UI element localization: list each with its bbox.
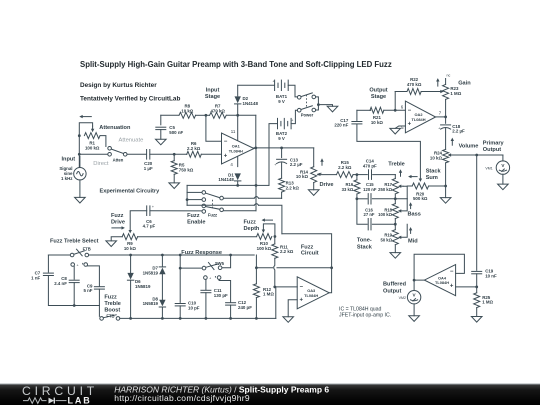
svg-text:10 kΩ: 10 kΩ [181,108,194,113]
annotation arrow Mid [409,227,412,233]
svg-text:Drive: Drive [320,182,334,188]
label Fuzz Circuit [301,244,319,256]
svg-text:Design by Kurtus Richter: Design by Kurtus Richter [80,82,157,89]
op-amp OA3 [297,277,329,309]
wire input rail [78,136,80,168]
svg-text:10 kΩ: 10 kΩ [124,246,137,251]
svg-text:V: V [413,293,417,298]
potentiometer R9 [122,234,137,252]
diode D6 [127,273,151,289]
wire feedback up [394,92,396,111]
hop rowA [254,197,258,199]
svg-text:750 kΩ: 750 kΩ [179,168,194,173]
svg-text:+: + [450,283,454,289]
op-amp OA4 [424,265,455,296]
svg-text:Gain: Gain [458,80,471,86]
svg-text:7: 7 [439,110,442,115]
svg-text:−: − [299,285,303,291]
svg-text:10 pF: 10 pF [188,306,200,311]
ground OA2 plus [390,128,401,134]
wire throw1b tap [187,199,202,201]
wire C10 column [179,255,182,302]
ground R5 [169,174,180,188]
wire top bus [89,254,255,257]
resistor R13 [279,178,300,192]
svg-text:Stack: Stack [357,244,373,250]
resistor R1 wiper arrow [91,126,94,132]
wire pin4 to D1 [237,156,239,166]
wire R1 to switch [100,136,106,147]
svg-text:1 µF: 1 µF [144,166,153,171]
wire bus x187 [186,185,188,205]
label Attenuation [99,125,131,131]
wire D1 to bus [237,181,239,186]
svg-text:1 MΩ: 1 MΩ [263,292,274,297]
label Stack Sum [426,168,442,181]
resistor R5 [171,154,194,174]
wire bypass corner to BAT2 rail [256,184,269,186]
svg-text:JFET-input op-amp IC.: JFET-input op-amp IC. [339,313,391,319]
label Buffered Output [383,282,407,295]
wire BAT2 right to switch [291,110,297,123]
resistor R11 [272,237,294,259]
svg-text:FTB: FTB [83,247,91,252]
svg-text:2.2 kΩ: 2.2 kΩ [280,249,294,254]
wiper arrow R18 [398,209,401,212]
voltmeter VM1 [485,155,509,174]
svg-text:Stage: Stage [371,94,386,100]
wire feedback down to output [255,115,257,148]
label Treble [388,162,404,168]
wire R22 left [395,91,407,93]
label Volume [459,144,479,150]
wire D2 to pin11 [237,104,239,141]
svg-text:500 nF: 500 nF [169,130,183,135]
voltage source V1 signal [74,156,86,197]
capacitor C7 [31,255,53,280]
wire horizontal2 [256,266,333,269]
wire R19 bottom [394,245,396,253]
wire row2 right [372,197,407,200]
potentiometer R18 [378,204,398,219]
svg-text:SW5: SW5 [215,261,225,266]
label Power [301,112,314,117]
annotation arrow attenuation [79,115,91,118]
wire R23 nc stub [446,74,451,85]
svg-text:33 kΩ: 33 kΩ [342,187,354,192]
label Fuzz Treble Select [50,239,99,245]
ground OA3 [283,317,294,323]
annotation arrow fuzz depth [262,218,273,221]
svg-text:Input: Input [206,88,220,94]
wire R11 hop down [274,258,275,285]
svg-text:2.2 µF: 2.2 µF [452,129,465,134]
resistor R8 [179,103,196,118]
svg-text:120 nF: 120 nF [363,187,377,192]
svg-text:100 kΩ: 100 kΩ [85,146,100,151]
wire R8 left [161,114,179,116]
diode D7 [143,266,166,276]
svg-text:2.2 kΩ: 2.2 kΩ [187,146,201,151]
terminal circles FTB [71,262,88,268]
svg-text:Output: Output [369,88,387,94]
label Fuzz Depth [244,220,260,232]
wire rowA right [259,197,282,199]
wire row3 drop [357,199,367,224]
capacitor C8 [54,266,79,286]
wire to power ground [318,105,332,107]
switch FTB2 bottom [100,315,120,320]
wire BAT1 rail [238,84,275,86]
svg-text:Stack: Stack [426,168,442,174]
svg-text:+: + [224,153,228,159]
svg-text:470 pF: 470 pF [363,163,377,168]
svg-text:Power: Power [301,112,314,117]
node R5 junction [173,153,176,156]
svg-text:Treble: Treble [388,162,404,168]
wire SW5 tap [180,267,202,269]
wire bypass top [187,184,257,187]
svg-text:TL084H: TL084H [411,117,425,122]
svg-text:Atten: Atten [113,157,124,162]
svg-text:130 pF: 130 pF [214,293,228,298]
wire rowC [223,210,256,212]
hop rowB [254,204,258,206]
svg-text:Attenuation: Attenuation [99,125,131,131]
wire R19 wiper return [401,224,407,237]
wire OA4 plus [456,286,477,288]
svg-text:+: + [438,126,440,130]
label V1 signal [59,166,73,181]
wire OA2 plus to ground [395,126,405,128]
wire R24 wiper to output [450,154,503,157]
svg-text:2.2 µF: 2.2 µF [290,162,303,167]
ground stack sum [440,198,451,204]
node OA1 output [254,147,257,150]
label Output Stage [369,88,387,101]
wire output node down [476,155,478,270]
svg-text:1N5819: 1N5819 [143,301,159,306]
wire R9 to R10 [138,236,257,238]
wire R25 bottom [476,308,478,317]
svg-text:VM2: VM2 [399,296,406,300]
svg-text:LAB: LAB [68,396,92,405]
wire R18 bottom lead [394,219,396,225]
resistor R18 top lead [394,199,396,204]
wire D2 rail top [237,85,239,96]
wire R9 left to ground [111,237,122,241]
switch SW Power pole1 [297,93,315,99]
node R11 OA3 minus [273,286,276,289]
svg-text:−: − [224,139,228,145]
wire R21 to OA2 minus [384,109,406,112]
byline verified [80,96,180,103]
svg-text:Drive: Drive [111,219,125,225]
wire R23 bottom [445,99,447,117]
footer logo squiggle [23,398,47,404]
annotation arrow Drive [320,158,323,165]
annotation arrow stack [408,175,417,178]
svg-text:Sum: Sum [426,175,438,181]
wire D7 D8 link [161,274,163,300]
voltmeter VM2 [399,280,421,304]
wire D6 column bottom [130,280,132,318]
wire C13 to R13 [281,163,283,178]
svg-text:2.2 kΩ: 2.2 kΩ [338,165,352,170]
annotation arrow fuzz drive [112,226,125,229]
wire R20 node to ground [445,186,447,198]
capacitor C17 [334,110,362,127]
svg-text:500 kΩ: 500 kΩ [413,196,428,201]
svg-text:Primary: Primary [483,140,505,146]
wire R20 left to treble wiper [407,185,412,187]
svg-text:1N5819: 1N5819 [135,284,151,289]
wire top bus left [48,254,70,256]
wire C11 bottom [205,293,207,319]
wire C5 branch [160,115,162,125]
capacitor C16 [364,207,375,230]
node OA4 output [413,279,416,282]
resistor R22 [407,77,422,95]
ground C5 [156,130,167,145]
wire R20 right [429,185,446,187]
svg-text:Fuzz: Fuzz [111,213,124,219]
ground R9 [106,241,117,247]
resistor R19 top lead [394,224,396,229]
wire R15 to C14 [353,173,367,176]
svg-text:Volume: Volume [459,144,479,150]
wire row2 [357,198,367,200]
label Fuzz Response [181,250,222,256]
wire C19 to R25 [475,274,478,289]
ground VM2 [409,304,420,322]
label Fuzz Drive [111,213,125,225]
svg-text:250 kΩ: 250 kΩ [378,187,392,192]
svg-text:nc: nc [447,74,451,78]
svg-text:Depth: Depth [244,226,260,232]
wire R18 wiper return [401,199,407,211]
wire C12 bottom [230,305,232,318]
svg-text:Tentatively Verified by Circui: Tentatively Verified by CircuitLab [80,96,180,103]
wire R12 bottom [255,298,257,319]
wire C20 to R6 [150,153,187,155]
resistor R25 [474,287,494,308]
resistor R6 [187,141,202,157]
wiper arrow R9 [129,230,132,233]
capacitor C10 [175,301,200,311]
svg-text:Enable: Enable [187,219,205,225]
svg-text:Fuzz: Fuzz [301,244,314,250]
svg-text:Experimental Circuitry: Experimental Circuitry [100,188,161,194]
svg-text:TL084H: TL084H [435,280,449,285]
svg-text:4.7 µF: 4.7 µF [143,224,156,229]
battery BAT1 [273,80,289,104]
switch SW5 [202,261,224,270]
svg-text:50 kΩ: 50 kΩ [380,238,392,243]
capacitor C12 [219,279,252,310]
potentiometer R10 [257,234,272,252]
wire switch common join [316,97,320,110]
wire OA3 minus [275,286,297,288]
svg-text:+: + [408,122,412,128]
svg-text:Output: Output [383,288,401,294]
capacitor C6 [143,205,156,228]
wire BAT1 to switch [288,85,297,97]
wire C8 bottom [73,283,75,306]
svg-text:Circuit: Circuit [301,251,319,257]
svg-text:9 V: 9 V [278,136,285,141]
svg-text:Stage: Stage [205,94,220,100]
wiper arrow R24 [448,153,451,156]
svg-text:27 nF: 27 nF [364,212,375,217]
capacitor C14 [363,158,377,179]
wire C18 to R24 [445,129,447,150]
wire R7 to feedback rail [227,114,256,117]
wire bottom bus [120,317,276,320]
wire R21 left [357,109,371,111]
switch SW2 fuzz pole2 [202,204,223,213]
node input junction [78,134,81,155]
label Input Stage [205,88,220,101]
label Experimental Circuitry [100,188,161,194]
svg-text:TL084H: TL084H [304,293,318,298]
wire rowA [223,197,254,199]
label Fuzz Treble Boost [104,294,120,318]
capacitor C20 [144,150,153,172]
svg-text:1 MΩ: 1 MΩ [482,300,493,305]
wiper arrow R23 [440,90,443,93]
capacitor C5 [156,125,184,135]
svg-text:+: + [274,163,276,167]
ground R25 [471,317,482,323]
wire OA3 plus to ground [288,300,297,317]
label Primary Output [483,140,505,153]
capacitor C19 [472,269,497,279]
wire R8 R7 junction [196,114,210,117]
diode D1 [218,172,240,182]
wire switch to C20 [127,153,146,155]
label Input [62,157,76,163]
terminal circles SW5 [204,275,221,281]
label Tone-Stack [357,238,373,251]
svg-text:240 pF: 240 pF [238,305,252,310]
wire top bus corner down [255,255,257,268]
potentiometer R17 [378,179,398,194]
svg-text:IC = TL084H quad: IC = TL084H quad [339,306,382,312]
label Attenuate (gray) [119,138,144,144]
op-amp OA2 [401,101,442,133]
switch SW Power pole2 [297,106,315,112]
ground tone stack [390,253,401,259]
wire R17 top lead [394,175,396,179]
annotation arrow Treble [399,169,402,176]
node bus tap [186,198,189,201]
label Fuzz switch [208,213,217,218]
resistor R21 [370,107,384,125]
wire C6 left to R9 wiper [130,211,147,230]
wiper arrow R14 [317,173,321,176]
wire R6 to OA1 plus [201,153,221,155]
svg-text:Fuzz Response: Fuzz Response [181,250,222,256]
svg-text:100 kΩ: 100 kΩ [378,212,392,217]
svg-text:Treble: Treble [104,301,120,307]
wire OA3 feedback [282,234,332,293]
svg-text:Split-Supply High-Gain Guitar: Split-Supply High-Gain Guitar Preamp wit… [80,60,392,69]
svg-text:10 kΩ: 10 kΩ [371,120,384,125]
battery BAT2 [276,118,293,141]
wire D8 bottom [161,307,163,318]
wire R1 wiper bracket [79,123,92,136]
ground power [327,106,338,112]
wiper arrow R17 [398,185,403,188]
svg-text:10 kΩ: 10 kΩ [430,156,443,161]
op-amp OA1 [222,129,255,167]
svg-text:2.4 nF: 2.4 nF [54,281,67,286]
label Direct (gray) [93,161,109,167]
svg-text:Fuzz: Fuzz [104,294,117,300]
annotation arrow Bass [409,202,412,208]
svg-text:Fuzz: Fuzz [187,213,200,219]
switch SW1 Atten [108,147,127,163]
svg-text:Fuzz Treble Select: Fuzz Treble Select [50,239,99,245]
wire OA1 out down to rowC [255,148,257,211]
resistor R15 [337,160,354,178]
svg-text:1 kHz: 1 kHz [61,176,73,181]
svg-text:10 kΩ: 10 kΩ [296,174,309,179]
potentiometer R1 [84,133,100,151]
svg-text:−: − [408,108,412,114]
node R10 R11 junction [274,235,277,238]
wire R13 to rowA [281,192,283,198]
wire OA2 out [436,116,447,119]
svg-text:10 nF: 10 nF [485,274,497,279]
gang dashes fuzz switch [212,200,214,209]
wire R16 top lead [356,175,358,180]
svg-text:220 nF: 220 nF [334,123,348,128]
svg-text:100 kΩ: 100 kΩ [257,246,272,251]
svg-text:6: 6 [401,105,404,110]
svg-text:Fuzz: Fuzz [208,213,217,218]
svg-text:VM1: VM1 [485,167,492,171]
footer bar [0,384,540,385]
gang dashes power switch [306,95,308,108]
label IC note [339,306,391,318]
svg-text:+: + [291,118,293,122]
diode D8 [143,296,166,307]
wire bottom bus corner up [275,287,277,319]
svg-text:1N5819: 1N5819 [143,271,159,276]
wire row3 right [372,223,396,226]
node fuzz fb junction [255,266,258,269]
capacitor C9 [83,266,104,293]
wire row2 left [356,194,359,200]
svg-text:−: − [450,269,454,275]
label Gain [458,80,471,86]
svg-text:+: + [299,298,303,304]
wire R14 wiper to R15 [319,174,337,176]
wire minus input drop [206,115,222,141]
wire R17 bottom lead [394,194,396,199]
resistor R7 [210,103,227,118]
wire R17 wiper return [403,186,407,199]
wiper arrow R19 [398,236,401,239]
svg-text:9 V: 9 V [278,99,285,104]
wire D7 column top [161,255,163,267]
svg-text:Output: Output [483,147,501,153]
capacitor C18 [438,117,465,134]
wiper bracket R10 [262,224,275,237]
svg-text:5 nF: 5 nF [83,288,92,293]
